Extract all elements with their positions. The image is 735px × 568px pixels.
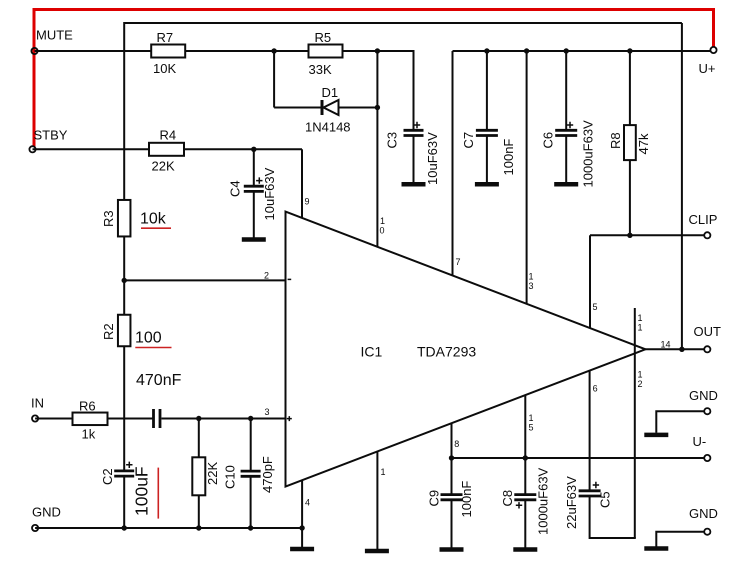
capacitor C3 plus — [414, 122, 420, 128]
wire C2 to ground rail — [123, 477, 125, 528]
capacitor C5 plus — [593, 482, 599, 488]
svg-text:1: 1 — [381, 467, 386, 477]
wire U- line — [452, 457, 705, 459]
wire CLIP line — [590, 234, 704, 236]
svg-text:7: 7 — [456, 257, 461, 267]
wire pin 4 line — [301, 480, 303, 528]
resistor R2 — [118, 315, 131, 347]
svg-text:1: 1 — [529, 413, 534, 423]
wire C3 to ground — [413, 136, 415, 182]
svg-text:C8: C8 — [500, 490, 515, 507]
svg-text:10uF63V: 10uF63V — [262, 167, 277, 220]
node R8 junction — [627, 48, 632, 53]
svg-text:IN: IN — [31, 396, 44, 411]
svg-text:STBY: STBY — [34, 128, 68, 143]
svg-text:3: 3 — [265, 407, 270, 417]
wire D1 anode lead — [274, 107, 321, 109]
ground C4 — [242, 237, 266, 242]
resistor 22K — [192, 457, 205, 495]
wire R5 to C3 corner — [343, 50, 414, 52]
svg-text:470pF: 470pF — [260, 456, 275, 493]
ground C3 — [402, 182, 426, 187]
wire feedback drop to R3 — [123, 22, 125, 201]
wire 22K bottom lead — [198, 495, 200, 528]
resistor R8 — [624, 125, 636, 160]
resistor R5 — [309, 45, 343, 58]
wire C7 branch — [486, 51, 488, 130]
capacitor 470nF coupling plates — [152, 409, 155, 428]
capacitor C4 plus — [256, 177, 262, 183]
wire pin 6 line — [589, 371, 591, 492]
wire C8 to ground — [524, 501, 526, 548]
ground C7 — [475, 182, 499, 187]
wire 22K top lead — [198, 419, 200, 458]
wire coupling cap to pin 3 — [162, 418, 286, 420]
wire R8 to CLIP line — [629, 160, 631, 235]
svg-text:1: 1 — [380, 216, 385, 226]
wire pin 5 line — [589, 235, 591, 328]
svg-text:22uF63V: 22uF63V — [564, 476, 579, 529]
wire feedback top rail — [124, 22, 682, 24]
wire C7 to ground — [486, 136, 488, 182]
ground pin 1 — [365, 549, 389, 554]
svg-text:GND: GND — [689, 388, 718, 403]
capacitor C10 plates — [241, 470, 261, 473]
terminal U+ — [710, 47, 716, 53]
wire GND input rail — [35, 527, 302, 529]
terminal IN — [32, 415, 38, 421]
svg-text:5: 5 — [529, 423, 534, 433]
wire pin 8 line — [451, 423, 453, 494]
svg-text:100uF: 100uF — [132, 466, 152, 516]
ground C6 — [554, 182, 578, 187]
wire bootstrap bottom link — [590, 537, 636, 539]
wire IN line to R6 — [35, 418, 72, 420]
svg-text:D1: D1 — [322, 85, 339, 100]
wire pin 11/12 line — [634, 308, 636, 538]
wire node A to pin 2 — [124, 279, 285, 281]
resistor R4 — [149, 143, 184, 156]
svg-text:2: 2 — [638, 379, 643, 389]
ground C9 — [440, 547, 464, 552]
node 22K top junction — [196, 416, 201, 421]
capacitor C2 plates — [114, 469, 134, 472]
svg-text:4: 4 — [305, 498, 310, 508]
svg-text:R3: R3 — [101, 210, 116, 227]
wire MUTE line — [35, 50, 153, 52]
svg-text:C2: C2 — [100, 468, 115, 485]
node C10 top junction — [248, 416, 253, 421]
ground pin 4 — [290, 547, 314, 552]
wire D1 to pin10 line — [339, 107, 378, 109]
svg-text:U-: U- — [693, 434, 707, 449]
svg-text:C5: C5 — [598, 491, 613, 508]
svg-text:0: 0 — [380, 226, 385, 236]
svg-text:10uF63V: 10uF63V — [425, 132, 440, 185]
wire C6 branch — [565, 51, 567, 130]
svg-text:GND: GND — [689, 506, 718, 521]
wire R4 to pin 9 corner — [184, 148, 302, 150]
node C7 junction — [484, 48, 489, 53]
capacitor C2 plus — [126, 462, 132, 468]
svg-text:2: 2 — [264, 271, 269, 281]
svg-text:100: 100 — [135, 330, 162, 347]
wire pin 13 line — [526, 51, 528, 304]
red jumper wire MUTE/STBY to U+ — [34, 10, 714, 148]
wire R8 top lead — [629, 51, 631, 126]
svg-text:10k: 10k — [140, 211, 167, 228]
terminal U- — [704, 455, 710, 461]
svg-text:1k: 1k — [82, 427, 96, 442]
ground right lower — [644, 546, 668, 551]
diode D1 triangle — [324, 100, 339, 115]
svg-text:1N4148: 1N4148 — [305, 120, 351, 135]
wire OUT line — [645, 348, 704, 350]
annotation 10k red underline — [141, 227, 171, 229]
diode D1 cathode bar — [321, 100, 324, 115]
wire pin4 ground stem — [301, 528, 303, 547]
ground C8 — [513, 547, 537, 552]
wire C5 bottom lead — [589, 497, 591, 539]
node R5 right / pin10 junction — [375, 48, 380, 53]
svg-text:U+: U+ — [699, 61, 716, 76]
wire C10 bottom lead — [250, 477, 252, 528]
svg-text:470nF: 470nF — [136, 372, 182, 389]
svg-text:1000uF63V: 1000uF63V — [581, 120, 596, 188]
node pin 13 junction — [524, 48, 529, 53]
terminal MUTE — [31, 48, 37, 54]
svg-text:10K: 10K — [153, 61, 176, 76]
wire C4 branch — [253, 149, 255, 185]
wire pin 15 line — [524, 395, 526, 494]
capacitor C7 plates — [476, 129, 498, 132]
wire pin 7 line — [452, 51, 454, 276]
wire R7 to R5 junction — [185, 50, 308, 52]
svg-text:TDA7293: TDA7293 — [417, 344, 476, 360]
svg-text:5: 5 — [593, 302, 598, 312]
wire C6 to ground — [565, 136, 567, 182]
svg-text:100nF: 100nF — [501, 139, 516, 176]
terminal GND left — [32, 525, 38, 531]
svg-text:R8: R8 — [608, 132, 623, 149]
svg-text:C7: C7 — [461, 132, 476, 149]
op-amp IC1 TDA7293 triangle — [286, 212, 646, 487]
wire D1 branch down from R7/R5 node — [273, 51, 275, 108]
wire pin 9 line — [301, 149, 303, 218]
svg-text:R5: R5 — [315, 30, 332, 45]
svg-text:1: 1 — [529, 272, 534, 282]
svg-text:R6: R6 — [79, 399, 96, 414]
node R7/R5/D1 junction — [271, 48, 276, 53]
svg-text:GND: GND — [32, 505, 61, 520]
svg-text:R7: R7 — [157, 30, 174, 45]
svg-text:8: 8 — [454, 439, 459, 449]
terminal STBY — [29, 146, 35, 152]
node C2/GND junction — [122, 525, 127, 530]
wire GND right upper — [656, 411, 704, 433]
svg-text:MUTE: MUTE — [36, 28, 73, 43]
node pin8/U- junction — [449, 455, 454, 460]
svg-text:33K: 33K — [309, 62, 332, 77]
capacitor C8 plus — [516, 502, 522, 508]
wire GND right lower — [656, 532, 704, 547]
wire C9 to ground — [451, 501, 453, 548]
wire R6 to coupling cap — [108, 418, 155, 420]
capacitor C4 plates — [244, 185, 264, 188]
wire feedback drop OUT to top rail — [681, 23, 683, 349]
svg-text:47k: 47k — [636, 133, 651, 154]
svg-text:C4: C4 — [228, 180, 243, 197]
pin 2 minus sign — [288, 278, 292, 280]
svg-text:R4: R4 — [160, 128, 177, 143]
svg-text:1000uF63V: 1000uF63V — [536, 467, 551, 535]
svg-text:14: 14 — [661, 340, 671, 350]
wire pin 1 line — [376, 451, 378, 549]
resistor R3 — [118, 200, 131, 237]
capacitor C8 plates — [514, 493, 536, 496]
svg-text:C3: C3 — [385, 132, 400, 149]
terminal CLIP — [704, 232, 710, 238]
wire pin 10 line — [376, 51, 378, 247]
svg-text:IC1: IC1 — [361, 344, 383, 360]
annotation 100uF red line — [157, 468, 159, 519]
terminal GND right lower — [704, 529, 710, 535]
node C6 junction — [564, 48, 569, 53]
svg-text:3: 3 — [529, 281, 534, 291]
node C10/GND junction — [248, 525, 253, 530]
capacitor C3 plates — [404, 129, 424, 132]
node 22K/GND junction — [196, 525, 201, 530]
node R8/CLIP junction — [627, 233, 632, 238]
terminal OUT — [704, 346, 710, 352]
svg-text:R2: R2 — [101, 323, 116, 340]
svg-text:C9: C9 — [427, 490, 442, 507]
svg-text:C6: C6 — [541, 132, 556, 149]
wire C4 to ground — [253, 192, 255, 238]
annotation 100 red underline — [135, 347, 171, 349]
ground right upper — [644, 433, 668, 438]
resistor R6 — [73, 413, 108, 426]
capacitor C5 plates — [579, 489, 601, 492]
terminal GND right upper — [704, 408, 710, 414]
svg-text:1: 1 — [638, 370, 643, 380]
wire C10 top lead — [250, 419, 252, 471]
svg-text:C10: C10 — [223, 465, 238, 489]
wire STBY line — [33, 148, 150, 150]
node OUT feedback junction — [679, 347, 684, 352]
capacitor C9 plates — [441, 493, 463, 496]
svg-text:1: 1 — [638, 323, 643, 333]
svg-text:9: 9 — [305, 197, 310, 207]
svg-text:OUT: OUT — [694, 324, 722, 339]
capacitor C6 plus — [567, 122, 573, 128]
node A junction R3/R2/pin2 — [122, 278, 127, 283]
node pin4/GND junction — [299, 525, 304, 530]
resistor R7 — [151, 45, 185, 58]
svg-text:1: 1 — [638, 313, 643, 323]
node C4 junction — [251, 147, 256, 152]
wire C3 branch — [413, 50, 415, 130]
svg-text:22K: 22K — [205, 462, 220, 485]
svg-text:6: 6 — [593, 384, 598, 394]
pin 3 plus sign — [287, 416, 292, 421]
wire R2 down to C2 — [123, 346, 125, 470]
svg-text:100nF: 100nF — [459, 481, 474, 518]
wire U+ supply rail — [453, 50, 711, 52]
svg-text:22K: 22K — [152, 159, 175, 174]
node pin15/U- junction — [523, 455, 528, 460]
svg-text:CLIP: CLIP — [689, 212, 718, 227]
node D1 cathode-net junction — [375, 105, 380, 110]
wire R3 to node A — [123, 236, 125, 315]
capacitor C6 plates — [555, 129, 577, 132]
